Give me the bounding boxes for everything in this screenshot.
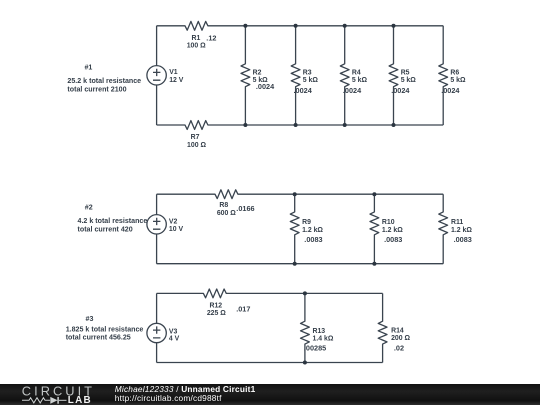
svg-text:R1: R1 <box>191 35 200 42</box>
svg-text:.00285: .00285 <box>304 343 326 352</box>
svg-text:#3: #3 <box>86 315 94 323</box>
svg-text:.0024: .0024 <box>441 86 460 95</box>
svg-text:10 V: 10 V <box>169 226 184 233</box>
svg-text:.0083: .0083 <box>454 235 472 244</box>
svg-text:R3: R3 <box>303 69 312 76</box>
svg-text:R12: R12 <box>209 303 222 310</box>
svg-text:http://circuitlab.com/cd988tf: http://circuitlab.com/cd988tf <box>115 393 222 403</box>
svg-text:R8: R8 <box>219 202 228 209</box>
svg-text:total current 456.25: total current 456.25 <box>66 334 131 342</box>
svg-text:1.2 kΩ: 1.2 kΩ <box>451 227 472 234</box>
svg-text:12 V: 12 V <box>169 77 184 84</box>
svg-text:V1: V1 <box>169 69 178 76</box>
svg-text:R5: R5 <box>401 69 410 76</box>
svg-text:.0024: .0024 <box>294 86 313 95</box>
svg-text:R4: R4 <box>352 69 361 76</box>
svg-text:R11: R11 <box>451 219 463 226</box>
svg-text:200 Ω: 200 Ω <box>391 335 410 342</box>
svg-text:4 V: 4 V <box>169 335 180 342</box>
svg-text:1.2 kΩ: 1.2 kΩ <box>302 227 323 234</box>
svg-text:.0166: .0166 <box>236 204 254 213</box>
svg-text:#2: #2 <box>85 204 93 212</box>
svg-text:R13: R13 <box>313 328 326 335</box>
svg-text:225 Ω: 225 Ω <box>207 310 226 317</box>
svg-text:5 kΩ: 5 kΩ <box>352 77 368 84</box>
svg-text:V3: V3 <box>169 328 178 335</box>
svg-text:100 Ω: 100 Ω <box>187 42 206 49</box>
svg-text:5 kΩ: 5 kΩ <box>450 77 466 84</box>
svg-text:R2: R2 <box>253 69 262 76</box>
svg-text:R10: R10 <box>382 219 395 226</box>
svg-text:4.2 k total resistance: 4.2 k total resistance <box>78 217 148 225</box>
svg-text:LAB: LAB <box>68 395 92 405</box>
svg-text:.017: .017 <box>236 304 250 313</box>
svg-text:R6: R6 <box>450 69 459 76</box>
svg-text:.0024: .0024 <box>391 86 410 95</box>
svg-text:1.2 kΩ: 1.2 kΩ <box>382 227 403 234</box>
svg-text:600 Ω: 600 Ω <box>217 210 236 217</box>
svg-text:.12: .12 <box>206 34 216 43</box>
svg-text:.02: .02 <box>394 343 404 352</box>
svg-text:100 Ω: 100 Ω <box>187 142 206 149</box>
svg-text:.0024: .0024 <box>343 86 362 95</box>
svg-text:R14: R14 <box>391 328 404 335</box>
svg-text:1.4 kΩ: 1.4 kΩ <box>313 335 334 342</box>
svg-text:25.2 k total resistance: 25.2 k total resistance <box>67 77 141 85</box>
svg-text:.0024: .0024 <box>256 82 275 91</box>
svg-text:R7: R7 <box>191 134 200 141</box>
svg-text:.0083: .0083 <box>304 235 322 244</box>
svg-text:#1: #1 <box>84 64 92 72</box>
svg-text:V2: V2 <box>169 219 178 226</box>
svg-text:total current 2100: total current 2100 <box>67 85 126 93</box>
svg-text:R9: R9 <box>302 219 311 226</box>
svg-text:total current 420: total current 420 <box>78 225 133 233</box>
svg-text:1.825 k total resistance: 1.825 k total resistance <box>66 326 144 334</box>
svg-text:5 kΩ: 5 kΩ <box>303 77 319 84</box>
svg-text:5 kΩ: 5 kΩ <box>401 77 417 84</box>
svg-text:.0083: .0083 <box>384 235 402 244</box>
